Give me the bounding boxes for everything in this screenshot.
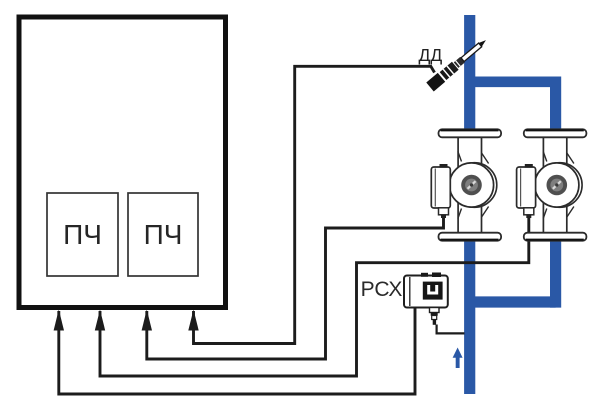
arrowhead 1	[54, 310, 64, 331]
flow arrow (blue, up)	[453, 348, 463, 369]
pipe: main vertical riser lower	[464, 239, 475, 394]
wire: pump 2 to cabinet (arrow 2)	[100, 214, 529, 376]
terminal box	[431, 167, 450, 208]
arrowhead 4	[188, 310, 198, 331]
bottom fitting	[430, 308, 440, 313]
svg-text:ДД: ДД	[419, 45, 443, 65]
wire: pump 1 to cabinet (arrow 3)	[147, 214, 444, 359]
wire: РСХ pressure switch to cabinet (arrow 1)	[59, 307, 415, 394]
svg-text:ПЧ: ПЧ	[63, 219, 102, 250]
arrowhead 3	[142, 310, 152, 331]
capillary to pipe	[437, 325, 465, 334]
pump 2	[517, 129, 587, 240]
pipe: bottom connector horizontal	[470, 296, 556, 307]
wire: ДД sensor to cabinet (arrow 4)	[194, 66, 435, 343]
pressure switch РСХ	[404, 273, 465, 334]
pipe: main vertical riser top	[464, 15, 475, 135]
bottom flange	[439, 233, 502, 241]
impeller cap	[461, 175, 482, 196]
casing body	[458, 136, 481, 236]
svg-text:ПЧ: ПЧ	[144, 219, 183, 250]
stator arc	[452, 163, 497, 208]
top flange	[439, 129, 502, 137]
pipe: pump 2 outlet vertical	[550, 239, 561, 308]
frequency drive box ПЧ 1	[47, 193, 118, 276]
pipe: top branch horizontal	[470, 76, 556, 87]
svg-text:РСХ: РСХ	[361, 278, 403, 301]
frequency drive box ПЧ 2	[128, 193, 198, 276]
pump 1	[431, 129, 501, 240]
control cabinet	[19, 17, 226, 308]
cable connector	[439, 208, 449, 215]
pipe: branch vertical to pump 2	[550, 77, 561, 136]
pressure sensor ДД	[426, 36, 489, 92]
volute	[449, 163, 493, 207]
arrowhead 2	[95, 310, 105, 331]
display window	[423, 282, 443, 300]
